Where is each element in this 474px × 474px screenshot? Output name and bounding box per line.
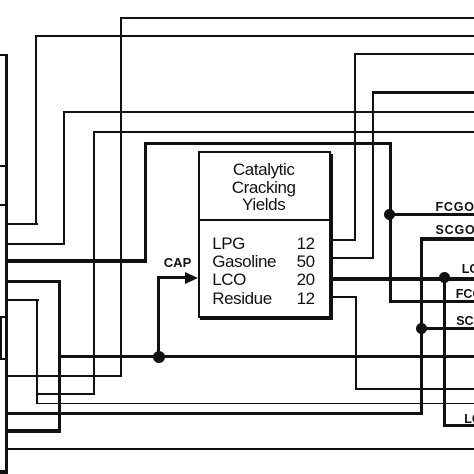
FCGO feed thick y=143.4 from x=145.6 to x=390.3 bbox=[144, 142, 392, 145]
box divider line bbox=[198, 219, 332, 221]
FC branch line y=301.7 to right edge bbox=[389, 300, 474, 303]
thick C-shaped line at left edge x=7 bbox=[5, 54, 8, 474]
left edge thin stub y=166 bbox=[0, 165, 6, 167]
thick CAP feed line y=356.3 from x=59.4 to right edge bbox=[58, 355, 474, 359]
FCGO branch vertical x=390.3 down to y=301.7 bbox=[389, 214, 392, 303]
SC branch line y=328.2 from dot to right edge bbox=[420, 327, 474, 330]
SCGO vertical x=421.2 from y=239 down to y=413.6 bbox=[420, 237, 423, 415]
LCO branch vertical x=444.2 from y=279 down to y=425.3 bbox=[443, 277, 446, 427]
box shadow bottom bar bbox=[200, 318, 332, 320]
label CAP bbox=[164, 255, 191, 270]
wire horizontal y=243.7 from thick left line to x=64 bbox=[6, 243, 65, 245]
box Catalytic Cracking Yields: shadow right bar bbox=[331, 154, 333, 320]
wire vertical x=64 from y=112 down to y=243.7 bbox=[63, 111, 65, 245]
label FCO (cut at edge) bbox=[456, 287, 474, 301]
wire horizontal y=394.2 from x=37.2 to x=94.3 bbox=[37, 393, 95, 395]
label FCGO bbox=[436, 200, 474, 214]
node dot CAP junction at (159,357) bbox=[153, 351, 165, 363]
FCGO vertical x=390.3 from y=143.4 down to dot bbox=[389, 142, 392, 216]
thin wire y=449 full width from left thick line to right edge bbox=[6, 448, 474, 450]
SCGO line y=239 from corner to right edge bbox=[420, 237, 474, 240]
left edge thin stub y=358.5 bbox=[0, 358, 6, 360]
label SCO (cut at edge) bbox=[456, 314, 474, 328]
wire vertical x=36.5 from y=36.4 down to y=224 bbox=[35, 35, 37, 225]
FCGO feed vertical x=145.6 from y=143.4 up-corner to y=261 bbox=[144, 142, 147, 260]
L branch line y=425.3 from x=444.2 to right edge bbox=[443, 424, 474, 427]
label SCGO bbox=[436, 223, 474, 237]
thick loop wire y=281.2 from left line to x=59.4 bbox=[6, 280, 61, 284]
CAP horizontal into arrowhead bbox=[157, 276, 187, 279]
wire y=131.8 from corner x=94.3 to right edge bbox=[93, 131, 474, 133]
LPG wire from box right edge going right then up at x=355 then right at y=54.1 bbox=[328, 239, 356, 241]
wire y=300 stub from left thick line to x=37.2 bbox=[6, 299, 39, 301]
CAP vertical x=158.3 from y=277.5 down to feed line bbox=[157, 276, 160, 356]
wire horizontal y=375.5 from left edge to x=120.7 bbox=[6, 375, 122, 377]
wire y=36.4 from corner x=36.5 to right edge bbox=[35, 35, 474, 37]
SCGO thick wire y=413.6 from left line to x=421.2 bbox=[6, 412, 423, 415]
FCGO feed thick wire y=261 from left line to x=145.6 bbox=[6, 259, 147, 263]
wire horizontal y=403.5 from x=37.2 to right edge bbox=[36, 403, 474, 405]
box frame bbox=[198, 151, 332, 318]
LCO thick line y=279 from box right edge to right edge bbox=[328, 277, 474, 280]
node dot SC junction at (421.5,328) bbox=[416, 323, 427, 334]
Residue wire from box right edge then down at x=355.9 then right at y=389 bbox=[328, 296, 357, 298]
wire vertical x=94.3 from y=131.8 down to y=394.2 bbox=[93, 131, 95, 395]
left edge short vertical x=1.2 joining stubs y=317..358.5 bbox=[0, 316, 2, 360]
CAP arrowhead bbox=[185, 272, 198, 284]
wire y=112 from corner x=64 to right edge bbox=[63, 111, 474, 113]
label LCO (cut at edge) bbox=[462, 262, 474, 276]
FCGO line y=214.5 from dot to right edge bbox=[389, 213, 474, 216]
thick loop vertical x=59.4 from y=281.2 down to y=430.9 bbox=[58, 280, 61, 433]
label L (cut at edge) bbox=[464, 412, 474, 426]
node dot LCO junction at (444.2,277.5) bbox=[439, 272, 450, 283]
Gasoline wire from box right edge then up at x=373 then right at y=92.5 bbox=[328, 257, 374, 259]
left edge thin stub y=205.3 bbox=[0, 204, 6, 206]
wire vertical x=120.7 from y=18 down to y=375.5 bbox=[120, 17, 122, 376]
wire vertical x=37.2 from y=300 down to y=403.5 bbox=[36, 299, 38, 404]
wire top line y=18 from corner x=120.7 going right to edge bbox=[120, 17, 474, 19]
box header text bbox=[200, 161, 328, 214]
thick loop y=430.9 from left line to x=59.4 bbox=[6, 429, 61, 432]
box table text bbox=[212, 235, 315, 309]
node dot FCGO junction at (389.5,214.5) bbox=[384, 209, 395, 220]
left edge thin stub y=317 bbox=[0, 316, 6, 318]
wire horizontal y=224 from thick left line to x=36.5 bbox=[6, 223, 38, 225]
